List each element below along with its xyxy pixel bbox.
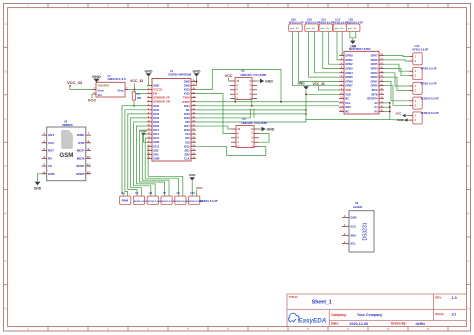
svg-text:E: E (467, 212, 469, 216)
svg-text:SDA: SDA (350, 233, 356, 237)
svg-text:VCC_33: VCC_33 (130, 79, 143, 83)
terminal block U14 (413, 53, 422, 65)
svg-text:Drawn By:: Drawn By: (391, 322, 407, 326)
U2 pins (95, 79, 97, 82)
U1 pin numbers (147, 80, 195, 159)
terminal block U10 (189, 196, 200, 204)
svg-text:GPA0: GPA0 (371, 84, 379, 88)
svg-text:VCC_33: VCC_33 (312, 82, 324, 86)
svg-text:CMD: CMD (153, 156, 159, 160)
terminal block U6 (147, 196, 158, 204)
wire U1 right GND pins (196, 77, 198, 86)
wire SCL bus to MCP23017 (196, 101, 339, 103)
svg-text:RESET#: RESET# (367, 97, 378, 101)
svg-text:NC: NC (186, 108, 190, 112)
svg-text:U21: U21 (349, 18, 354, 22)
svg-text:IO26: IO26 (153, 124, 159, 128)
svg-text:VCC: VCC (196, 186, 203, 190)
svg-text:GPA6: GPA6 (371, 58, 379, 62)
svg-text:GND: GND (397, 118, 403, 122)
junction VCC_33 node (134, 89, 136, 91)
svg-text:IO0: IO0 (185, 136, 190, 140)
svg-text:10: 10 (386, 327, 390, 331)
svg-text:RING: RING (77, 133, 85, 137)
svg-text:GND/PAD: GND/PAD (98, 84, 110, 88)
terminal block U13 (319, 24, 333, 32)
svg-text:GND: GND (48, 172, 56, 176)
wire ground to U10 pin1 (191, 181, 193, 197)
terminal block U19 (289, 24, 303, 32)
svg-text:1.0: 1.0 (452, 296, 457, 300)
U8 pin VCC (342, 225, 349, 227)
svg-text:GND: GND (153, 84, 159, 88)
wire resistor top (133, 90, 135, 92)
svg-text:RXD0: RXD0 (183, 100, 191, 104)
svg-text:11: 11 (87, 163, 91, 167)
svg-text:WJ301V-5.0-2P: WJ301V-5.0-2P (199, 199, 218, 203)
svg-text:IO2: IO2 (185, 140, 190, 144)
svg-text:KF301-5.0-2P: KF301-5.0-2P (319, 22, 334, 24)
svg-text:GND: GND (140, 129, 146, 133)
svg-text:IO12: IO12 (153, 136, 159, 140)
svg-text:10: 10 (87, 155, 91, 159)
svg-text:Pw: Pw (296, 28, 299, 30)
svg-text:Company:: Company: (331, 313, 347, 317)
terminal block U16 (413, 68, 422, 80)
ground below GSM (35, 182, 41, 186)
svg-text:EasyEDA: EasyEDA (298, 317, 326, 324)
svg-text:IO32: IO32 (153, 112, 159, 116)
svg-text:NC: NC (345, 110, 349, 114)
svg-text:RST: RST (48, 149, 54, 153)
wire bundle ESP32 left pins to bottom headers (122, 106, 183, 196)
svg-text:IO22: IO22 (184, 92, 190, 96)
terminal block U22 (413, 112, 422, 124)
svg-text:TITLE:: TITLE: (289, 295, 298, 299)
svg-text:KF301-5.0-2P: KF301-5.0-2P (413, 49, 429, 52)
svg-text:SD0: SD0 (184, 152, 190, 156)
svg-text:GPB5: GPB5 (345, 75, 353, 79)
svg-text:GND: GND (184, 80, 190, 84)
svg-text:Pw: Pw (354, 28, 357, 30)
svg-text:GND: GND (265, 79, 273, 83)
svg-text:DTR: DTR (78, 141, 85, 145)
svg-text:10: 10 (386, 4, 390, 8)
svg-text:12: 12 (87, 170, 91, 174)
GSM module U3 SIM800L (47, 127, 86, 181)
svg-text:A: A (467, 22, 469, 26)
svg-text:AMS1117-3.3: AMS1117-3.3 (108, 77, 127, 81)
svg-text:GND: GND (92, 74, 101, 79)
svg-text:IO17: IO17 (184, 124, 190, 128)
svg-text:deffix: deffix (416, 322, 426, 326)
terminal block U17 (413, 82, 422, 94)
svg-text:Vin: Vin (98, 93, 103, 97)
svg-text:HDR-IDC 2.54-2X5P: HDR-IDC 2.54-2X5P (241, 73, 267, 77)
svg-text:GPA3: GPA3 (371, 71, 379, 75)
svg-text:U10: U10 (190, 192, 195, 195)
title block (287, 294, 467, 327)
svg-text:IO27: IO27 (153, 128, 159, 132)
U8 pin GND (342, 216, 349, 218)
wire VCC_33 label stem (134, 83, 136, 89)
svg-text:U12: U12 (335, 18, 340, 22)
svg-text:ds3231: ds3231 (353, 205, 363, 209)
svg-text:GPB1: GPB1 (345, 58, 353, 62)
svg-text:GND: GND (350, 44, 356, 48)
U11 pin numbers (340, 54, 383, 112)
svg-text:KF301-5.0-2P: KF301-5.0-2P (175, 201, 189, 203)
svg-text:SD1: SD1 (184, 148, 190, 152)
svg-text:VCC: VCC (225, 74, 233, 78)
svg-text:IO35: IO35 (153, 108, 159, 112)
svg-text:MICP: MICP (77, 149, 85, 153)
svg-text:GND: GND (267, 127, 275, 131)
svg-text:GPA2: GPA2 (371, 75, 379, 79)
wire P1 pin1 drop (251, 100, 253, 106)
svg-text:GPB6: GPB6 (345, 79, 353, 83)
svg-text:B: B (467, 69, 469, 73)
svg-text:TX: TX (48, 164, 52, 168)
svg-text:NC: NC (345, 97, 349, 101)
U11 pin names (345, 54, 378, 114)
svg-text:2020-12-08: 2020-12-08 (350, 322, 368, 326)
svg-text:IO23: IO23 (184, 88, 190, 92)
P2 pin numbers (237, 127, 253, 149)
svg-text:GND: GND (193, 69, 201, 73)
svg-text:EN: EN (153, 92, 157, 96)
svg-text:IO21: IO21 (184, 104, 190, 108)
svg-text:SCL: SCL (345, 101, 351, 105)
ESP32-WROOM module U1 (152, 79, 191, 162)
svg-text:ESP32-WROOM: ESP32-WROOM (169, 72, 192, 76)
svg-text:R1: R1 (137, 92, 141, 96)
wire SDA bus to MCP23017 (196, 105, 339, 107)
svg-text:RX: RX (48, 156, 52, 160)
svg-text:10K: 10K (137, 96, 142, 100)
U1 pin names (153, 80, 190, 161)
U1 pin stubs (147, 82, 196, 159)
svg-text:IO14: IO14 (153, 132, 159, 136)
wire VSS to GND stem (306, 93, 339, 95)
svg-text:IO19: IO19 (184, 112, 190, 116)
svg-text:VCC: VCC (48, 141, 55, 145)
svg-text:IO34: IO34 (153, 104, 159, 108)
svg-text:VCC33: VCC33 (153, 88, 162, 92)
wire GND stem down to rail (305, 90, 307, 120)
svg-text:SPKN: SPKN (76, 172, 84, 176)
svg-text:F: F (468, 259, 470, 263)
svg-text:IO16: IO16 (184, 128, 190, 132)
wire resistor bottom to IO34 net (133, 100, 135, 106)
svg-text:U18: U18 (307, 18, 312, 22)
svg-text:DS3231: DS3231 (363, 222, 369, 240)
svg-text:WJ301V-5.0-2P: WJ301V-5.0-2P (421, 112, 439, 115)
terminal block U4 (120, 196, 131, 204)
svg-text:GPB0: GPB0 (345, 54, 353, 58)
svg-text:GPA1: GPA1 (371, 79, 379, 83)
wire GND rail to U22 pin2 (390, 119, 409, 122)
svg-text:CLK: CLK (184, 156, 190, 160)
svg-text:IO25: IO25 (153, 120, 159, 124)
svg-text:GND: GND (184, 84, 190, 88)
P2 pin stubs (231, 129, 259, 147)
svg-text:GPB7: GPB7 (345, 84, 353, 88)
wire stub corner b (253, 109, 255, 118)
wire VCC to U2 Vin (92, 94, 93, 98)
svg-text:GPB4: GPB4 (345, 71, 353, 75)
EasyEDA logo (289, 313, 300, 322)
U8 pin SDA (342, 234, 349, 236)
svg-text:VCC: VCC (88, 97, 97, 102)
svg-text:Date:: Date: (331, 322, 339, 326)
wire VCC_33 to U2 Vout (70, 86, 93, 90)
svg-text:SENSOR_VP: SENSOR_VP (153, 96, 170, 100)
svg-text:Your Company: Your Company (357, 313, 382, 317)
svg-text:GPA4: GPA4 (371, 67, 379, 71)
svg-text:P1: P1 (242, 69, 246, 73)
svg-text:E: E (5, 212, 7, 216)
svg-text:VSS: VSS (345, 92, 351, 96)
resistor R1 10K (132, 92, 135, 100)
U11 pin stubs (339, 56, 384, 112)
GSM pin names and numbers (43, 132, 90, 176)
wire loop under P2 (196, 146, 266, 155)
svg-text:KF301-5.0-2P: KF301-5.0-2P (305, 22, 320, 24)
GSM pin stubs (42, 135, 92, 174)
svg-text:ANT: ANT (48, 133, 54, 137)
svg-text:Sheet_1: Sheet_1 (312, 300, 332, 306)
svg-text:A1: A1 (374, 105, 378, 109)
terminal block U7 (161, 196, 172, 204)
svg-text:WJ301V-5.0-2P: WJ301V-5.0-2P (421, 97, 439, 100)
svg-text:SD2: SD2 (153, 148, 159, 152)
svg-text:KF301-5.0-2P: KF301-5.0-2P (162, 201, 176, 203)
svg-text:MICN: MICN (77, 156, 85, 160)
wire U1 left GND pin (147, 77, 149, 86)
svg-text:GND: GND (153, 140, 159, 144)
svg-text:SIM800L: SIM800L (62, 123, 74, 127)
svg-text:SCL: SCL (350, 241, 356, 245)
svg-text:Sheet:: Sheet: (435, 312, 444, 316)
svg-text:KF301-5.0-2P: KF301-5.0-2P (421, 83, 437, 86)
terminal block U20 (413, 97, 422, 109)
svg-text:U13: U13 (321, 18, 326, 22)
svg-text:SDA: SDA (345, 105, 351, 109)
wire P1 pin2 drop (234, 100, 236, 102)
svg-text:A0: A0 (374, 110, 378, 114)
wire GSM GND pin (38, 174, 42, 182)
svg-text:KF301-5.0-2P: KF301-5.0-2P (148, 201, 162, 203)
svg-text:VDD: VDD (345, 88, 351, 92)
svg-text:A: A (5, 22, 7, 26)
terminal block U5 (133, 196, 144, 204)
svg-text:GND: GND (297, 82, 305, 86)
svg-text:IO18: IO18 (184, 116, 190, 120)
wire A2 A1 A0 tie (389, 103, 391, 120)
wire IO23 loop over P1 (196, 69, 281, 101)
wire stub corner (196, 109, 251, 118)
svg-text:KF301-5.0-2P: KF301-5.0-2P (134, 201, 148, 203)
svg-text:SENSOR_VN: SENSOR_VN (153, 100, 170, 104)
svg-text:GND: GND (189, 173, 197, 177)
wire EN pin (136, 93, 148, 95)
svg-text:SPKP: SPKP (76, 164, 84, 168)
svg-text:REV: REV (435, 296, 441, 300)
wire U2 Vout to ESP32 VCC33 (128, 89, 147, 91)
svg-text:GND: GND (34, 187, 42, 191)
IO expander U11 MCP23017-E/SO (344, 51, 379, 114)
svg-text:GPA7: GPA7 (371, 54, 379, 58)
svg-text:F: F (5, 259, 7, 263)
svg-text:IO33: IO33 (153, 116, 159, 120)
ground at P2 pin9 (259, 128, 262, 130)
svg-text:GSM: GSM (59, 152, 73, 159)
terminal block U18 (305, 24, 319, 32)
svg-text:INTB: INTB (371, 92, 377, 96)
connector P1 HDR-IDC 2.54-2X5P (235, 78, 252, 100)
svg-text:TXD0: TXD0 (183, 96, 190, 100)
svg-text:A2: A2 (374, 101, 378, 105)
svg-text:SD3: SD3 (153, 152, 159, 156)
svg-text:11: 11 (426, 327, 429, 331)
U8 pin SCL (342, 242, 349, 244)
P1 pin numbers (236, 79, 251, 101)
wires terminal blocks to GPB pins (293, 32, 343, 86)
svg-text:WJ301V-5.0-2P: WJ301V-5.0-2P (347, 22, 364, 24)
svg-text:GPB3: GPB3 (345, 67, 353, 71)
wire VCC to U10 pin2 (196, 190, 198, 196)
svg-text:GND: GND (145, 69, 153, 73)
svg-text:U19: U19 (291, 18, 296, 22)
terminal block U12 (333, 24, 347, 32)
svg-text:VCC: VCC (350, 224, 356, 228)
svg-text:B: B (5, 69, 7, 73)
svg-text:GND: GND (350, 215, 356, 219)
P1 pin stubs (230, 81, 257, 99)
svg-text:VCC: VCC (396, 111, 402, 115)
wires U21 to ground (350, 32, 356, 38)
svg-text:VCC_33: VCC_33 (67, 80, 83, 85)
svg-text:1/1: 1/1 (452, 312, 457, 316)
wire TXD net to GND stem (196, 109, 306, 111)
svg-text:Vout: Vout (98, 88, 104, 92)
wire VCC to P1 pin10 (229, 78, 231, 81)
wire VCC_33 to VDD (319, 86, 340, 90)
svg-text:Pw: Pw (340, 28, 343, 30)
ground at P1 pin9 (257, 80, 260, 82)
svg-text:GPA5: GPA5 (371, 62, 379, 66)
svg-text:Vout: Vout (117, 88, 123, 92)
voltage regulator U2 AMS1117-3.3 (96, 82, 125, 97)
wire GND rail to A2A1A0 (196, 120, 390, 122)
terminal block U9 (175, 196, 186, 204)
wires GPA pins to right blocks (384, 56, 409, 106)
svg-text:11: 11 (426, 4, 429, 8)
terminal block U21 (346, 24, 360, 32)
wire to P2 pin10 (196, 126, 231, 129)
svg-text:IO5: IO5 (185, 120, 190, 124)
connector P2 HDR-IDC 2.54-2X5P (236, 126, 254, 148)
RTC module U8 DS3231 (349, 211, 374, 252)
wire P2 right loop (259, 133, 269, 142)
svg-text:Pw: Pw (312, 28, 315, 30)
svg-text:P2: P2 (243, 117, 247, 121)
svg-text:Pw: Pw (326, 28, 329, 30)
wire AGND to U1 GND pin (144, 136, 148, 143)
svg-text:KF301-5.0-2P: KF301-5.0-2P (289, 22, 304, 24)
ground below U21 (350, 41, 356, 44)
wire IO22 to P2 pin8 (196, 94, 231, 134)
svg-text:HDR-IDC 2.54-2X5P: HDR-IDC 2.54-2X5P (242, 121, 268, 125)
wire RXD net to GND stem (196, 113, 306, 115)
svg-text:IO15: IO15 (184, 144, 190, 148)
svg-text:GPB2: GPB2 (345, 62, 353, 66)
svg-text:KF301-5.0-2P: KF301-5.0-2P (421, 68, 437, 71)
svg-text:U14: U14 (415, 44, 420, 48)
svg-text:INTA: INTA (372, 88, 378, 92)
svg-text:PWM: PWM (122, 199, 128, 203)
SIM card icon (62, 131, 72, 149)
svg-text:IO4: IO4 (185, 132, 190, 136)
svg-text:IO13: IO13 (153, 144, 159, 148)
net flags VCC GND at U22 (406, 115, 409, 117)
